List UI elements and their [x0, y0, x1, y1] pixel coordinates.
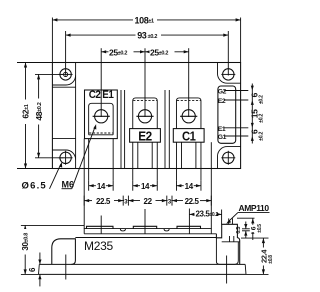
top view: left rim inner edge	[52, 63, 75, 169]
dim 25±0.2 right	[145, 47, 189, 57]
top view: corner block bottom-left	[52, 150, 75, 160]
svg-text:93 ±0.2: 93 ±0.2	[137, 31, 157, 41]
top view: corner block bottom-right	[218, 147, 241, 169]
side view: mounting hole centerline left	[65, 255, 67, 280]
svg-text:E2: E2	[138, 128, 152, 143]
svg-text:±0.2: ±0.2	[259, 132, 265, 141]
terminal screw 2 (M6)	[136, 110, 153, 123]
mounting hole bottom-left	[59, 151, 73, 165]
side view: baseplate	[39, 264, 247, 274]
dim 93±0.2	[66, 31, 229, 76]
dim 23.5±0.2	[189, 209, 221, 234]
svg-text:14: 14	[141, 182, 150, 191]
dim 14 box2	[133, 181, 158, 191]
side view: mounting hole centerline right	[226, 256, 228, 284]
top view: module outline	[52, 63, 240, 169]
side view: left end panel	[52, 239, 76, 265]
side view: terminal strip top edge	[84, 229, 211, 234]
terminal screw 1 (M6)	[93, 110, 110, 123]
svg-text:E2: E2	[218, 98, 226, 105]
side view: boss centerlines	[101, 209, 145, 234]
mounting hole top-right	[221, 69, 235, 80]
svg-text:C2: C2	[89, 89, 101, 101]
dim 6±0.5 (pins)	[250, 218, 263, 240]
mounting hole bottom-right	[221, 151, 235, 165]
terminal box 3 well (C1)	[176, 98, 201, 129]
centerline terminal 3	[188, 48, 190, 117]
svg-text:G2: G2	[218, 89, 227, 96]
svg-text:6: 6	[28, 267, 37, 272]
terminal box 2 label box	[130, 129, 161, 143]
svg-text:AMP110: AMP110	[239, 203, 270, 213]
svg-text:108±1: 108±1	[135, 15, 155, 25]
side view: terminal boss plateaus	[87, 226, 201, 228]
dim 48±0.2 (left)	[34, 74, 64, 157]
side view: right end with connector dip	[216, 224, 239, 264]
svg-text:22.5: 22.5	[96, 197, 111, 206]
svg-text:±0.5: ±0.5	[257, 224, 263, 233]
dim 108±1	[52, 15, 240, 62]
terminal box 1 outer (C2 E1)	[85, 90, 118, 139]
side view: inner cavity right	[216, 238, 238, 264]
dim chain 22.5 / 3 / 22 / 3 / 22.5	[84, 196, 211, 206]
dim 30±0.8	[21, 225, 84, 274]
aux terminal housing	[218, 86, 236, 143]
svg-text:14: 14	[185, 182, 194, 191]
aux dimension 6 / 15 / 6	[249, 84, 264, 144]
svg-text:Ø6.5: Ø6.5	[22, 180, 47, 191]
svg-text:23.5±0.2: 23.5±0.2	[196, 210, 219, 219]
label M6 with leader	[62, 124, 97, 190]
terminal screw 3 (M6)	[180, 110, 197, 123]
dim 22.4±0.8	[241, 238, 274, 274]
dim 62±1 (left)	[17, 63, 52, 169]
top view: corner block top-right	[218, 63, 241, 84]
side view: connector pins	[229, 218, 255, 224]
dim 25±0.2 left	[101, 47, 145, 57]
side view: gap notches	[120, 229, 169, 231]
svg-text:0.5: 0.5	[236, 227, 242, 234]
aux wire E1	[224, 127, 248, 129]
terminal box 1 well	[89, 103, 114, 135]
side view: terminal strip second edge	[84, 233, 216, 235]
svg-text:M235: M235	[84, 239, 113, 253]
terminal box 2 well (E2)	[133, 98, 158, 129]
aux wire G1	[224, 135, 248, 137]
rib lines below boxes	[84, 90, 211, 229]
svg-text:E1: E1	[102, 89, 114, 101]
terminal box 3 label box	[173, 129, 204, 143]
aux wire E2	[224, 99, 248, 101]
centerline terminal 1	[100, 48, 102, 117]
svg-text:E1: E1	[218, 126, 226, 133]
label Ø6.5 with leader	[22, 162, 63, 191]
svg-text:±0.2: ±0.2	[259, 114, 265, 123]
svg-text:±0.8: ±0.8	[268, 255, 274, 264]
side view: AMP110 connector body	[222, 236, 240, 242]
dim 14 box3	[176, 181, 201, 191]
centerline terminal 2	[144, 48, 146, 117]
svg-text:±0.2: ±0.2	[259, 95, 265, 104]
svg-text:G1: G1	[218, 134, 227, 141]
svg-text:C1: C1	[182, 128, 196, 143]
dim 6 (baseplate)	[28, 253, 42, 287]
dim 14 box1	[89, 181, 114, 191]
side view: face top edge	[75, 237, 216, 239]
label AMP110 with leader	[226, 203, 269, 224]
svg-text:22.5: 22.5	[185, 197, 200, 206]
aux wire G2	[224, 90, 248, 92]
dim 0.5 (connector step)	[236, 222, 250, 239]
svg-text:14: 14	[97, 182, 106, 191]
top view: corner block top-left	[52, 75, 75, 85]
mounting hole top-left	[59, 69, 73, 80]
svg-text:22: 22	[144, 197, 153, 206]
